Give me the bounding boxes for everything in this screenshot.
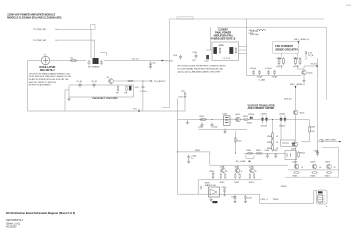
box PIN DETECT CIRCUITRY [69,85,134,97]
svg-text:FL1 HYBRID: FL1 HYBRID [88,66,100,68]
resistor R304 [298,151,306,158]
svg-text:TP305: TP305 [273,199,280,201]
diode pair CR202 CR203 [261,114,268,124]
svg-text:B: B [255,171,257,173]
svg-text:C310: C310 [222,187,228,189]
svg-text:FWD_/REV_PWR: FWD_/REV_PWR [320,139,337,141]
oscillator Y1 [41,56,49,64]
box bias network [281,140,295,146]
wire bottom row2 rail [288,169,339,171]
diode CR301 [292,143,294,145]
transistor Q100 in FPA [214,47,221,54]
svg-text:TP304: TP304 [281,186,288,188]
svg-text:(2)47K: (2)47K [293,66,300,68]
wire FPA input vertical [206,27,212,50]
wire FPA outputs [239,19,247,76]
svg-text:R310: R310 [210,171,216,173]
wire component row y153 [244,153,285,158]
svg-text:Q102: Q102 [308,73,314,75]
svg-text:1.41uH: 1.41uH [250,68,257,70]
label FPA pin row [222,58,231,60]
svg-text:170: 170 [192,60,196,62]
svg-text:1: 1 [324,196,326,198]
wire bottom row3 rail [198,180,262,194]
svg-text:RX_INJ: RX_INJ [311,64,317,66]
ground pin detect input [67,97,70,101]
svg-text:1N4148: 1N4148 [261,126,267,128]
svg-text:1K: 1K [301,167,304,169]
svg-text:PIN DETECT CIRCUITRY: PIN DETECT CIRCUITRY [92,98,118,100]
capacitor C5 on box edge [76,81,83,88]
svg-text:C102: C102 [205,61,209,63]
svg-text:CLD6957: CLD6957 [218,29,229,31]
label TP304 [281,186,288,188]
label 1.5V [135,87,140,89]
note RF OUTPUT LEVEL text [178,66,227,74]
svg-text:CIRCUITRY IN SHADED AREAS PRES: CIRCUITRY IN SHADED AREAS PRESENT ONLY [29,72,72,75]
node TX_PWR_SET [33,29,57,31]
resistor R5 inside box [116,85,119,94]
label R303 [195,150,201,152]
svg-text:1K: 1K [319,167,322,169]
node FWD_REV_PWR [318,139,342,142]
wire Q1 output [111,81,151,85]
svg-text:FINAL POWER: FINAL POWER [215,31,231,34]
svg-text:CR202: CR202 [261,114,268,116]
title block top-left [7,13,61,19]
test point TP101 [305,52,314,60]
label stack values [276,136,279,150]
wire feed from 9.3V rail down [177,120,288,195]
capacitor C301 [264,150,270,158]
svg-text:FIL_LOAD: FIL_LOAD [236,160,246,163]
svg-text:(2)47K: (2)47K [277,66,284,68]
svg-text:1.5V: 1.5V [135,87,140,89]
label FPA_1_SENSE_A top [294,38,309,44]
svg-text:C10 .01: C10 .01 [132,58,140,60]
svg-text:5_CAB: 5_CAB [259,79,266,82]
label CR202 values [261,126,286,128]
svg-text:AND CURRENT LIMITER: AND CURRENT LIMITER [248,107,275,110]
node TX_PWR_DET [33,40,57,42]
transistor Q204 [293,110,305,115]
transistor Q205 [291,142,298,150]
wire translator main rail [178,120,310,130]
svg-text:1N4148: 1N4148 [279,126,285,128]
transistor Q201 [235,114,241,122]
resistor R302 [255,150,262,154]
svg-text:Q311: Q311 [220,166,226,168]
label TP305 [273,199,280,201]
ic U100 label [219,45,225,47]
label J301 pin note [326,206,328,208]
transistor Q1 pin detect [107,77,114,84]
node FIL_LOAD [236,160,251,163]
svg-text:L101: L101 [173,55,178,57]
wire inner box top edge [217,27,327,100]
wire FL1 to C10 [100,53,162,61]
wire bottom-right box [285,147,339,177]
svg-text:1 2 3 4 5: 1 2 3 4 5 [222,58,231,60]
svg-text:CR201: CR201 [248,114,255,116]
svg-text:R5: R5 [116,93,119,95]
svg-text:1K: 1K [334,167,337,169]
svg-text:TX_DETECT: TX_DETECT [154,81,166,83]
svg-text:1 2 3: 1 2 3 [346,5,351,7]
diode pair CR204 CR205 [279,114,286,124]
ground U301 [209,197,217,203]
svg-text:HYBRID (SEE NOTE 3): HYBRID (SEE NOTE 3) [211,38,236,40]
svg-text:Q1: Q1 [107,77,111,79]
capacitor C105 [257,70,263,79]
resistor R300 on feed [235,137,241,143]
svg-text:Q204: Q204 [300,113,306,115]
svg-text:2.2K: 2.2K [311,131,316,133]
svg-text:C313_4: C313_4 [261,199,269,201]
svg-text:2: 2 [324,199,326,201]
wire sense row [247,59,318,151]
svg-text:ON R2 MODULES. FREQUENCY RANGE: ON R2 MODULES. FREQUENCY RANGE OF THE [29,75,72,78]
svg-text:C7 10u: C7 10u [140,91,146,93]
note paragraph under oscillator [29,72,72,86]
label R320 10K [200,182,211,189]
resistor R301 [246,150,253,154]
svg-text:TX_PWR_SET: TX_PWR_SET [33,29,47,31]
capacitor C304 shunt [187,155,197,163]
svg-text:170pF: 170pF [272,77,278,79]
svg-text:C301: C301 [264,150,270,152]
inductor L100 [249,30,266,35]
label C113 4.7 [250,31,259,36]
capacitor C310 [222,187,228,196]
diode CR201 [247,114,255,124]
capacitor C107 [272,70,278,79]
resistor pair R100 R101 sense [277,57,285,68]
wire left block left edge [28,61,186,112]
resistor R202 [243,116,249,120]
svg-text:1u: 1u [191,158,193,160]
wire outer box top edge [170,19,325,108]
svg-text:C302: C302 [273,150,279,152]
svg-text:U201: U201 [223,114,229,116]
label B_CAB [259,79,266,82]
ferrite bead on TX pair [91,24,95,29]
svg-text:R1 AND R2 HYBRID MODULES IS SE: R1 AND R2 HYBRID MODULES IS SET AT THE [29,78,69,81]
svg-text:B: B [226,171,228,173]
wire TX_PWR_DET drop [57,40,95,58]
resistor R201 [199,116,207,120]
svg-text:Q4100, Q4101, AND ASSOCIATED C: Q4100, Q4101, AND ASSOCIATED CIRCUITRY [178,71,222,74]
resistor R310 [210,171,216,179]
svg-text:NOTES FOR ALIGNMENT.: NOTES FOR ALIGNMENT. [29,84,52,87]
svg-text:4: 4 [326,206,328,208]
svg-text:SEE NOTE 2: SEE NOTE 2 [40,69,55,72]
svg-text:R321 10K: R321 10K [207,185,217,187]
svg-text:C201: C201 [198,127,204,129]
svg-text:U100: U100 [219,45,225,47]
svg-text:R300: R300 [237,141,241,143]
transistor Q102 sense [302,70,314,75]
svg-text:C312: C312 [247,198,253,200]
capacitor C7 output filter [140,81,146,112]
wire pin detect left stub [65,90,69,111]
label OSCILLATOR SEE NOTE 2 [39,66,55,72]
resistor R6 inside box [125,85,128,94]
svg-text:1K: 1K [276,136,279,138]
connector tab on top edge [177,17,193,19]
svg-text:R301: R301 [247,150,253,152]
svg-text:MODELS CLD1069A (R1) AND CLD12: MODELS CLD1069A (R1) AND CLD1269A (R2) [7,17,61,20]
transistor Q302 [293,161,304,177]
ground translator center [223,129,226,133]
capacitor C311 [231,195,237,203]
svg-text:1K: 1K [276,142,279,144]
wire link to 9.3V drop [162,107,170,109]
label VOLTAGE TRANSLATOR AND CURRENT LIMITER [248,104,275,110]
svg-text:TX_PWR_DET: TX_PWR_DET [33,40,47,42]
capacitor C202 [211,122,219,128]
svg-text:C5 .01: C5 .01 [76,81,83,83]
box FPA CURRENT SENSE [272,42,299,54]
label TP3 on bottom wire [133,109,140,112]
svg-text:U2(B): U2(B) [293,58,299,60]
svg-text:R208 100: R208 100 [284,99,292,101]
svg-text:Q201: Q201 [235,114,241,116]
svg-text:R207: R207 [311,127,317,129]
capacitor C10 [132,58,140,60]
box driver stage [285,151,297,160]
svg-text:CR204: CR204 [279,114,286,116]
svg-text:Q313: Q313 [249,166,255,168]
svg-text:C11: C11 [152,63,156,65]
node RX_INJ [311,64,319,67]
svg-text:R312: R312 [234,182,240,184]
capacitor C6 on box edge [91,81,98,88]
svg-text:Q312: Q312 [234,166,240,168]
transistor Q304 [325,161,336,177]
resistor stack R204 R205 R206 [267,132,273,152]
label FPA CURRENT SENSE [275,45,298,51]
filter FL1 input cluster [88,58,104,68]
connector J301 [317,190,328,204]
capacitor C101 left of FPA [192,52,198,62]
wire Q204 collector rail [295,89,297,165]
svg-text:C6 .01: C6 .01 [91,81,98,83]
svg-text:R304: R304 [300,153,306,155]
op-amp U301 [207,185,220,197]
svg-text:R6: R6 [125,93,128,95]
transistor group Q311 [220,165,229,184]
svg-text:AMPLIFIER (FPA): AMPLIFIER (FPA) [214,34,233,37]
svg-text:DC Distribution Board Schemati: DC Distribution Board Schematic Diagram … [6,211,75,215]
wire sense pairs verticals [281,53,304,69]
capacitor C312 [244,195,253,203]
svg-text:B: B [241,171,243,173]
svg-text:R311: R311 [220,182,226,184]
svg-text:Q303: Q303 [311,161,317,163]
svg-text:170pF: 170pF [257,77,263,79]
svg-text:FPA_1_SENSE_B: FPA_1_SENSE_B [290,83,305,86]
wire bottom return [178,191,317,204]
svg-text:4/13/2007: 4/13/2007 [6,226,17,229]
svg-text:FACTORY. REFER TO SERVICE: FACTORY. REFER TO SERVICE [29,81,57,84]
svg-text:9.3V_RX: 9.3V_RX [179,97,188,99]
wire stack feed [273,120,282,141]
svg-text:TP3: TP3 [133,109,138,111]
svg-text:RF OUTPUT LEVEL FROM PIN IS CO: RF OUTPUT LEVEL FROM PIN IS CONTROLLED B… [178,66,227,68]
resistor R7 inside box dark [129,86,132,91]
svg-text:Q302: Q302 [293,161,299,163]
label CLD6957 FPA hybrid [211,29,236,40]
svg-text:TP_A: TP_A [308,54,314,57]
svg-text:SENSE CIRCUITRY: SENSE CIRCUITRY [275,49,298,52]
svg-text:(Sheet 1 of 1): (Sheet 1 of 1) [6,222,20,225]
box U100 hybrid [212,42,239,60]
capacitor C106 [265,68,272,75]
svg-text:R203: R203 [247,123,253,125]
resistor R1 [70,57,78,61]
label R208 [284,99,292,101]
ic U201 [223,114,231,126]
transistor group Q312 [234,165,243,184]
page header marks top right [346,5,351,7]
svg-text:U2(A): U2(A) [277,57,283,60]
resistor R4 collector [127,80,133,81]
wire oscillator output [28,60,87,62]
label C313 on return wire [261,199,269,201]
svg-text:R313: R313 [249,182,255,184]
wire feed to FIL row [235,131,236,154]
resistor pair R102 R103 sense [293,57,301,68]
svg-text:R302: R302 [256,150,262,152]
capacitor C104 [250,68,257,75]
svg-text:R202: R202 [243,116,249,118]
ground right rail [316,150,319,153]
oscillator label Y1 [44,55,47,57]
transistor Q303 [311,161,322,177]
svg-text:C202: C202 [213,127,219,129]
svg-text:B_CONT SIGNAL FROM KEYSTER MOD: B_CONT SIGNAL FROM KEYSTER MODULE VIA [178,68,224,71]
inductor L101 input [173,54,182,59]
svg-text:Q205: Q205 [291,149,297,151]
svg-text:R1: R1 [71,57,74,59]
svg-text:1.41uH: 1.41uH [265,68,272,70]
svg-text:R201: R201 [200,116,206,118]
svg-text:84PT2986PT3-2: 84PT2986PT3-2 [6,219,24,222]
transistor group Q313 [249,165,257,184]
capacitor C303 top right [314,151,320,157]
transistor Q101 in FPA [230,47,237,54]
junction dots main rail [202,119,282,120]
capacitor C302 [273,150,279,158]
svg-text:Q304: Q304 [325,161,331,163]
wire TX_PWR_SET to FPA input [57,29,92,58]
ground translator left [186,120,189,125]
label PIN DETECT CIRCUITRY [92,98,118,100]
label FPA_1_SENSE_B bottom [290,83,305,89]
svg-text:3: 3 [324,202,326,204]
test point TP2 on left block [181,91,186,96]
node TX_DETECT [151,80,167,83]
capacitor C201 [198,122,204,128]
svg-text:C101: C101 [192,52,198,54]
supply 9.3V drop [178,97,188,120]
capacitor C11 shunt [149,61,157,68]
bottom-left sheet title [6,211,75,229]
node TX_INJ arrow [162,60,173,63]
svg-text:VOLTAGE TRANSLATOR: VOLTAGE TRANSLATOR [248,104,275,107]
capacitor C102 below box left [205,55,210,63]
ground sense [302,75,305,82]
svg-text:FPA_1_SENSE_A: FPA_1_SENSE_A [294,38,309,41]
resistor R207 [301,120,316,142]
